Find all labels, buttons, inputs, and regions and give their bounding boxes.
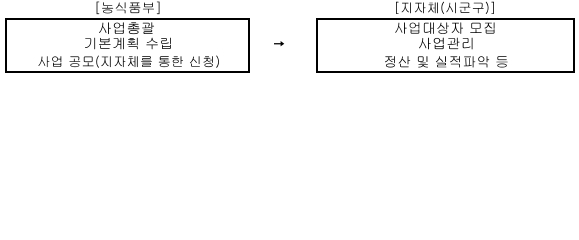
arrow from left box to right box bbox=[274, 41, 284, 46]
label 농식품부: [농식품부] bbox=[97, 2, 160, 15]
right line1: 사업대상자 모집 bbox=[395, 22, 494, 34]
label 지자체(시군구): [지자체(시군구)] bbox=[396, 2, 494, 14]
right line2: 사업관리 bbox=[419, 38, 473, 50]
left line3: 사업 공모(지자체를 통한 신청) bbox=[39, 56, 219, 68]
left box: 농식품부 (Ministry of Agriculture) duties bbox=[5, 18, 250, 73]
left line2: 기본계획 수립 bbox=[85, 38, 171, 50]
left line1: 사업총괄 bbox=[99, 22, 154, 34]
right box: 지자체 (local governments) duties bbox=[316, 18, 575, 73]
right line3: 정산 및 실적파악 등 bbox=[385, 56, 508, 67]
text layer (Korean text drawn as SVG outlines from Gulim) bbox=[0, 0, 579, 79]
